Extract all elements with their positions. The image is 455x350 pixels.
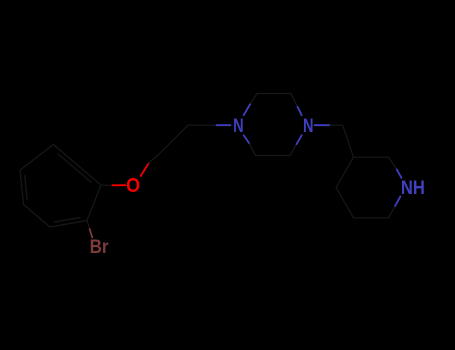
piperidine NH-C6 dark half [389, 207, 395, 218]
piperazine N1-CH2 upper blue half [244, 104, 251, 116]
bond C3-N1 dark half [206, 124, 217, 126]
piperazine bottom C-C edge [255, 155, 290, 157]
svg-text:NH: NH [401, 178, 425, 199]
piperazine N1-CH2 lower dark half [250, 144, 256, 156]
bond N2-CH2 dark half [330, 124, 343, 126]
benzene edge C2(Br-attach)-C3a [50, 221, 87, 228]
piperidine C2-NH dark half [389, 157, 397, 169]
piperidine C5-C4 edge [336, 188, 354, 218]
bond O-CH2 red half [141, 163, 149, 176]
benzene aromatic inner line [58, 154, 91, 183]
piperidine top edge [354, 156, 389, 158]
piperidine NH-C6 blue half [395, 196, 401, 206]
svg-text:N: N [233, 116, 244, 137]
piperazine top C-C edge [257, 93, 291, 95]
chain C1-C2 bond [158, 125, 188, 155]
bond CH2-piperidine C3 [343, 125, 354, 157]
benzene edge C4a-C5a [20, 170, 24, 205]
benzene edge C3a-C4a [24, 205, 51, 228]
benzene edge C6a-C1(O-attach) [54, 145, 102, 186]
piperazine N2-CH2 upper blue half [298, 107, 302, 115]
piperazine N2-CH2 upper dark half [291, 94, 298, 107]
svg-text:Br: Br [90, 237, 110, 258]
bond C2-Br dark half [87, 221, 90, 230]
bond C2-Br brown half [90, 229, 93, 238]
piperazine N2-CH2 lower dark half [290, 144, 297, 155]
bond N2-CH2 blue half [315, 124, 331, 126]
piperazine N2-CH2 lower blue half [297, 135, 302, 144]
piperidine bottom edge [354, 217, 389, 219]
bond C1-O red half [112, 184, 125, 186]
svg-text:O: O [126, 175, 140, 197]
benzene aromatic inner line [25, 176, 28, 200]
benzene aromatic inner line [54, 218, 80, 223]
piperidine C4-C3 edge [336, 157, 354, 187]
piperazine N1-CH2 lower blue half [244, 135, 250, 144]
piperidine C2-NH blue half [397, 170, 402, 178]
chain C2-C3 bond [188, 124, 206, 126]
bond C3-N1 blue half [217, 124, 231, 126]
piperazine N1-CH2 upper dark half [251, 94, 258, 104]
benzene edge C5a-C6a [20, 145, 54, 171]
bond C1-O dark half [101, 184, 112, 186]
bond O-CH2 dark half [149, 155, 158, 163]
svg-text:N: N [303, 116, 314, 137]
benzene edge C1(O-attach)-C2(Br-attach) [87, 185, 101, 220]
